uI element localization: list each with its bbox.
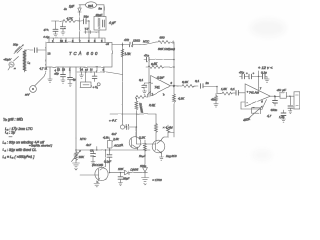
svg-text:6,3K: 6,3K <box>182 80 189 84</box>
svg-text:47n: 47n <box>44 28 49 32</box>
node E output junction <box>274 96 276 98</box>
ground bottom left column <box>142 178 162 185</box>
wire bottom bus <box>76 149 150 151</box>
svg-text:= improv. shorted ]: = improv. shorted ] <box>29 144 52 148</box>
capacitor 0.1 input row2 <box>231 87 246 95</box>
svg-text:110Ω: 110Ω <box>133 39 141 43</box>
resistor collector load vertical <box>155 114 171 142</box>
svg-text:OA95: OA95 <box>131 167 139 171</box>
svg-text:2,2K: 2,2K <box>148 103 156 107</box>
svg-text:≈: ≈ <box>14 67 16 71</box>
wire meter right <box>97 5 105 17</box>
resistor 4.7k box bottom <box>103 136 119 151</box>
svg-text:mV: mV <box>25 93 30 97</box>
resistor 2.2K bottom left column <box>138 136 147 169</box>
op-amp U3 741 <box>245 84 270 107</box>
feedback potentiometer 450K <box>241 100 267 123</box>
capacitor series at node F <box>125 125 137 130</box>
svg-text:30p: 30p <box>13 43 18 47</box>
svg-text:14: 14 <box>80 68 83 72</box>
svg-text:+10 μF: +10 μF <box>277 88 287 92</box>
svg-text:4,3K: 4,3K <box>178 97 185 101</box>
resistor 6.8K mid row <box>146 62 174 69</box>
svg-text:AC151: AC151 <box>113 144 124 148</box>
capacitor 0.1 2n output row <box>195 79 221 94</box>
svg-text:0,1μF: 0,1μF <box>104 160 111 164</box>
svg-text:1kΩ¼W: 1kΩ¼W <box>138 102 144 113</box>
capacitor 4n7 stub <box>86 143 97 150</box>
svg-text:4,7: 4,7 <box>267 114 272 118</box>
svg-text:4n7: 4n7 <box>86 143 91 147</box>
svg-text:1μF: 1μF <box>69 5 74 9</box>
box component below pin bus <box>81 72 92 88</box>
svg-text:10μF: 10μF <box>139 154 146 158</box>
transformer T1 box <box>94 13 106 30</box>
capacitor 0.1u supply to ground <box>259 71 270 83</box>
svg-text:(AC125): (AC125) <box>92 163 103 167</box>
capacitor 30u <box>80 15 90 32</box>
wire pin14 column down <box>75 71 77 138</box>
svg-text:2,2K: 2,2K <box>138 136 146 140</box>
svg-text:T-T: T-T <box>85 27 89 31</box>
svg-text:L₄ : 30μ with fixed CL: L₄ : 30μ with fixed CL <box>3 148 37 152</box>
wire inv input <box>149 81 151 83</box>
svg-text:-: - <box>247 101 248 105</box>
svg-text:30μ: 30μ <box>84 15 89 19</box>
meter M1 <box>86 2 103 11</box>
diode D2 to ground <box>143 168 148 178</box>
capacitor 0.1u to ground <box>44 21 66 39</box>
signal source 40uV <box>4 57 19 71</box>
svg-text:15: 15 <box>85 68 88 72</box>
resistor 1.5K input row2 <box>221 87 234 95</box>
speaker jack output box <box>294 92 300 109</box>
capacitor +10uF output <box>275 88 294 114</box>
ground on pin bus <box>80 72 84 78</box>
svg-text:45n: 45n <box>211 98 216 102</box>
svg-text:56K 10/(mw): 56K 10/(mw) <box>158 47 175 51</box>
ground under Q3 <box>159 157 163 160</box>
svg-text:13: 13 <box>62 68 65 72</box>
wire T-T junction <box>84 27 99 38</box>
op-amp U2 741 <box>151 76 173 97</box>
inductor L5 to ground <box>211 94 218 107</box>
node F terminal circle <box>109 119 125 137</box>
svg-text:+ 4 K: + 4 K <box>109 119 117 123</box>
svg-text:1,5n: 1,5n <box>279 115 285 119</box>
svg-text:6: 6 <box>171 81 173 85</box>
svg-text:0,1μ: 0,1μ <box>261 71 267 75</box>
svg-text:4n: 4n <box>64 7 68 11</box>
svg-text:—: — <box>8 134 13 138</box>
IC pin stubs top <box>52 38 105 43</box>
svg-text:NTC: NTC <box>80 137 87 141</box>
capacitor C8 to ground <box>90 149 95 165</box>
svg-text:741: 741 <box>155 86 161 90</box>
wire bottom pin bus <box>77 72 123 75</box>
resistor 1.3K on node B <box>121 49 131 57</box>
svg-text:0,1: 0,1 <box>231 87 236 91</box>
svg-text:4,3k: 4,3k <box>103 136 109 140</box>
resistor 1k quarter-watt column <box>135 99 144 138</box>
svg-text:1,5K: 1,5K <box>221 87 227 91</box>
node C main vertical line right <box>173 44 175 94</box>
diode D1 <box>78 5 81 38</box>
resistor 4.7K <box>61 17 80 23</box>
op-amp IC U1 TCA600 <box>46 43 112 68</box>
resistor 15K mid left <box>72 138 85 163</box>
diode OA95 <box>110 167 143 175</box>
capacitor under pin 1 <box>68 67 76 87</box>
svg-text:2n: 2n <box>205 81 210 85</box>
svg-text:+: + <box>152 92 154 96</box>
svg-text:40μV: 40μV <box>4 58 12 62</box>
svg-text:+: + <box>253 71 255 75</box>
svg-text:To grill : 3kΩ: To grill : 3kΩ <box>3 118 23 122</box>
svg-text:4μ: 4μ <box>73 78 77 82</box>
svg-text:2,2k: 2,2k <box>112 137 119 141</box>
svg-text:0,1: 0,1 <box>195 79 200 83</box>
capacitor under pin 9 <box>58 67 65 83</box>
svg-text:+: + <box>246 71 248 75</box>
ground mid left <box>73 163 80 170</box>
output row: resistor 6.3K <box>174 80 198 88</box>
svg-text:L₁: L₁ <box>28 61 31 65</box>
svg-text:1,3K: 1,3K <box>125 52 132 56</box>
svg-text:6: 6 <box>261 100 263 104</box>
svg-text:3: 3 <box>163 93 165 97</box>
wire top bus above IC <box>49 37 105 39</box>
notes text block <box>3 118 53 159</box>
node D apex junction <box>170 85 174 87</box>
svg-text:680: 680 <box>160 36 165 40</box>
svg-text:4,7: 4,7 <box>40 67 44 71</box>
transistor Q3 2N1613 <box>136 137 176 158</box>
svg-text:TCA 600: TCA 600 <box>69 51 99 56</box>
output wire opamp2 <box>270 95 275 97</box>
wire meter left <box>79 4 86 6</box>
ground under pin 4 <box>48 71 52 82</box>
svg-text:+ 12 v ˂: + 12 v ˂ <box>258 65 273 70</box>
svg-text:150n: 150n <box>271 108 278 112</box>
wire coil bottom <box>24 68 26 72</box>
svg-text:+5: +5 <box>106 42 110 46</box>
resistor M vertical right2 <box>164 125 173 137</box>
svg-text:4,2μF: 4,2μF <box>157 76 164 80</box>
paper smudge mid right <box>252 149 272 161</box>
svg-text:7: 7 <box>260 87 262 91</box>
capacitor 47n mid row <box>144 54 174 62</box>
svg-text:15K: 15K <box>79 155 85 159</box>
svg-text:L₄ = L₂ ( ×550μ⁵=1 ]: L₄ = L₂ ( ×550μ⁵=1 ] <box>3 155 36 159</box>
svg-text:-: - <box>152 81 153 85</box>
resistor 4.3K vertical <box>173 94 186 137</box>
svg-text:47n: 47n <box>124 38 129 42</box>
resistor 2.2K noninv <box>136 92 157 108</box>
capacitor 25uF to ground <box>118 173 130 186</box>
svg-text:M: M <box>170 126 173 130</box>
svg-text:mA: mA <box>88 4 94 8</box>
capacitor 150n to ground <box>271 96 278 112</box>
capacitor 4.7 to ground <box>267 110 286 122</box>
wire bus drop left <box>48 38 50 43</box>
wire trimmer to cap <box>25 49 34 51</box>
connector J1 <box>25 71 47 97</box>
svg-text:13: 13 <box>48 52 51 56</box>
wire mid horizontal y114 <box>110 113 156 115</box>
svg-text:fm: fm <box>99 7 103 11</box>
capacitor 0.1u opamp1 input <box>139 78 149 94</box>
transistor Q2 AC125 <box>80 150 108 187</box>
svg-text:+: + <box>247 90 249 94</box>
svg-text:25μF: 25μF <box>122 177 130 181</box>
resistor NTC 680 <box>140 36 174 45</box>
svg-text:45p: 45p <box>54 72 59 76</box>
svg-text:16: 16 <box>90 68 93 72</box>
electrolytic capacitor on pin bus <box>92 72 100 86</box>
wire node C bottom junction <box>168 132 174 134</box>
transistor Q1 AC151 <box>113 127 141 150</box>
svg-text:≈ 1700: ≈ 1700 <box>153 178 162 182</box>
wire feedback left branch <box>148 60 150 98</box>
svg-text:450K: 450K <box>243 117 252 123</box>
IC pin stubs bottom <box>45 67 105 74</box>
inductor L1 coil <box>23 50 30 71</box>
svg-text:741 AM: 741 AM <box>249 91 259 95</box>
svg-text:4n7: 4n7 <box>112 132 117 136</box>
capacitor C in (series) <box>35 48 51 56</box>
svg-text:10K: 10K <box>118 167 124 171</box>
capacitor 47n row top <box>123 38 141 47</box>
svg-text:NTC: NTC <box>143 40 150 44</box>
svg-text:0,1: 0,1 <box>139 78 144 82</box>
svg-text:4 μF: 4 μF <box>109 21 116 25</box>
svg-text:2N1613: 2N1613 <box>165 154 177 158</box>
capacitor 0.1uF to diode row <box>104 150 112 173</box>
svg-text:+ C₁: + C₁ <box>93 85 98 89</box>
supply rail caps 47u <box>239 71 259 91</box>
trimmer capacitor 30p <box>13 43 23 54</box>
capacitor 47n to ground <box>44 21 61 37</box>
node B main vertical line <box>122 45 124 122</box>
